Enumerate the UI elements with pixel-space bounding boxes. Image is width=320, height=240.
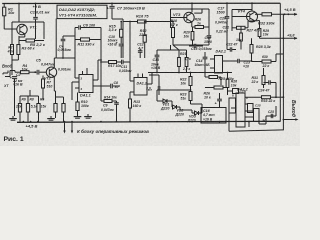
capacitor C4: [58, 36, 76, 58]
transistor VT1: [17, 24, 37, 34]
resistor R10: [76, 93, 89, 115]
wire VT4 box: [232, 2, 253, 31]
resistor R6: [15, 96, 26, 122]
capacitor C16 boxed label: [201, 108, 226, 124]
capacitor C2 electrolytic: [10, 60, 23, 116]
op-amp DA2.2: [231, 88, 249, 128]
capacitor C9: [101, 101, 119, 122]
box aux left: [229, 98, 236, 113]
wire left feed: [4, 4, 17, 30]
resistor R22: [180, 72, 192, 90]
wire mid bus: [148, 72, 232, 74]
ground C2: [9, 116, 17, 120]
wire VT3 box: [171, 2, 210, 35]
resistor R18: [169, 19, 178, 45]
resistor R22b: [182, 50, 191, 73]
resistor R30: [252, 54, 284, 68]
wire DA1.1 out: [98, 47, 110, 86]
wire collector drop VT1: [18, 3, 20, 22]
wire VT1 emitter to R4 node: [19, 34, 25, 37]
resistor R9: [37, 96, 47, 122]
wire +9.8 drop right: [282, 14, 284, 119]
capacitor C25: [268, 110, 274, 118]
resistor R31: [251, 68, 266, 88]
label Ris 1: [4, 136, 24, 143]
wire bottom common rail: [17, 121, 280, 122]
capacitor C26 electrolytic: [204, 92, 222, 108]
resistor R20: [184, 27, 194, 45]
box aux mid: [248, 104, 267, 124]
wire VT2 collector up: [54, 58, 56, 68]
op-amp DA1.2: [130, 74, 152, 96]
wire DA1.2 out: [130, 73, 152, 93]
capacitor C12: [137, 43, 144, 58]
resistor R1: [3, 7, 16, 16]
capacitor C1: [30, 4, 51, 40]
wire x56 drop: [55, 19, 57, 58]
transistor VT3: [171, 12, 195, 23]
ground R12: [47, 116, 55, 120]
op-amp DA2.1: [210, 50, 228, 74]
wire cluster tops: [157, 45, 187, 50]
node R4 C5: [34, 71, 36, 73]
wire VT2 emitter down: [54, 77, 55, 91]
node bus taps: [64, 121, 73, 123]
resistor R21: [178, 50, 187, 73]
wire bottom sub-box: [229, 113, 283, 131]
ground mid: [84, 114, 92, 118]
resistor R2: [7, 45, 14, 61]
transistor VT2: [44, 67, 57, 81]
capacitor C-fb DA1.2: [146, 75, 160, 95]
resistor R3: [12, 45, 36, 61]
capacitor C22: [226, 26, 238, 52]
node rail junctions: [23, 121, 260, 123]
resistor R33: [245, 96, 284, 103]
diode VD2: [172, 101, 184, 117]
capacitor C7 electrolytic: [107, 3, 145, 20]
resistor R13: [129, 92, 142, 122]
resistor R28: [250, 38, 271, 61]
resistor R13b: [56, 97, 66, 122]
resistor R25: [205, 73, 234, 86]
label Vhod input: [2, 64, 13, 69]
resistor R5: [19, 36, 46, 47]
wire DA1.1 in: [56, 57, 75, 100]
wire feedback box: [75, 28, 101, 59]
wire VT3 out: [194, 9, 202, 13]
wire tap arrows: [63, 122, 73, 134]
resistor R25b: [205, 86, 228, 89]
capacitor C14 electrolytic: [195, 52, 211, 73]
capacitor C23: [228, 59, 252, 69]
resistor R11: [75, 38, 101, 46]
capacitor C8: [111, 81, 120, 89]
resistor R27: [232, 21, 260, 33]
resistor R16: [123, 13, 173, 23]
capacitor C17: [217, 2, 230, 26]
wire x130 drop: [129, 21, 131, 62]
resistor R7: [42, 76, 53, 101]
label DA1 DA2 types boxed: [57, 5, 107, 18]
resistor R29: [256, 21, 269, 39]
resistor R12b: [138, 21, 147, 58]
wire C7 box: [112, 19, 123, 58]
resistor R17: [100, 61, 121, 69]
resistor R15: [109, 21, 123, 44]
resistor R8: [26, 96, 37, 122]
resistor R24: [226, 72, 237, 95]
capacitor C6: [75, 24, 101, 30]
capacitor C15: [189, 44, 212, 51]
resistor R12 tail: [54, 91, 57, 118]
label +4.5V out: [284, 7, 298, 16]
diode VD1: [157, 90, 191, 111]
diode VD3: [180, 104, 202, 122]
capacitor C24: [258, 80, 276, 97]
capacitor C10 electrolytic: [108, 35, 124, 58]
node top C1: [35, 3, 37, 5]
wire right border: [279, 3, 281, 121]
label C21: [216, 26, 229, 34]
label to operation block: [77, 128, 149, 134]
wire DA2.2 bottom pins: [245, 104, 276, 127]
label +4.5V bus: [26, 124, 38, 129]
resistor R14: [101, 72, 117, 103]
wire +9.8V top rail: [2, 2, 280, 4]
resistor R32: [255, 13, 297, 26]
resistor R23: [180, 89, 192, 104]
wire bias row top: [20, 90, 39, 96]
capacitor C5: [35, 59, 55, 75]
resistor R26: [192, 18, 209, 29]
capacitor C19: [228, 89, 246, 95]
resistor R4: [15, 64, 35, 74]
label Vyhod output: [283, 100, 299, 121]
label +9 V: [33, 4, 41, 9]
transistor VT4: [232, 9, 258, 23]
capacitor C18: [173, 36, 212, 50]
connector XT1: [3, 71, 15, 89]
capacitor C13 electrolytic: [151, 50, 161, 73]
capacitor C3 label: [58, 67, 71, 71]
label +9.8 out: [260, 34, 298, 40]
label C20: [215, 17, 228, 25]
capacitor C11: [119, 60, 132, 81]
label R29b: [236, 26, 242, 50]
wire VT1 loop: [12, 22, 44, 45]
op-amp DA1.1: [75, 68, 98, 98]
ground R10: [74, 114, 82, 118]
